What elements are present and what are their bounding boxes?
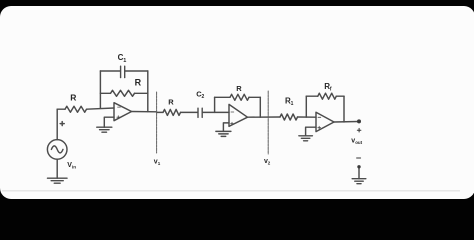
- svg-text:in: in: [72, 165, 76, 170]
- svg-text:R: R: [168, 98, 174, 107]
- svg-text:2: 2: [202, 94, 205, 100]
- svg-text:1: 1: [158, 161, 161, 166]
- svg-text:f: f: [330, 87, 332, 93]
- svg-text:R: R: [236, 84, 242, 93]
- svg-text:1: 1: [291, 101, 294, 107]
- svg-text:1: 1: [123, 58, 126, 64]
- svg-text:2: 2: [268, 161, 271, 166]
- svg-text:R: R: [70, 93, 76, 103]
- svg-text:out: out: [355, 140, 362, 145]
- svg-text:R: R: [135, 77, 142, 87]
